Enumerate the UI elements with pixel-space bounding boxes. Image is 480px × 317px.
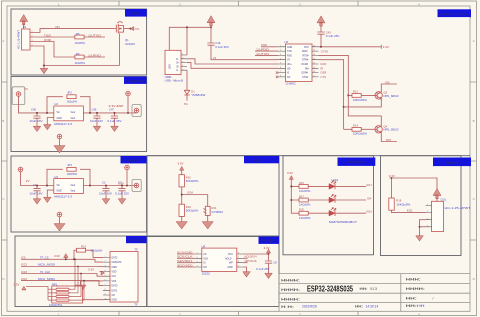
svg-text:1: 1: [32, 31, 33, 33]
svg-text:SI: SI: [203, 263, 206, 265]
svg-text:HHHH:: HHHH:: [281, 298, 300, 302]
svg-text:G: G: [176, 70, 178, 72]
svg-text:XO: XO: [287, 77, 291, 79]
svg-text:3.3V: 3.3V: [14, 282, 20, 286]
svg-text:1KΩ±5%: 1KΩ±5%: [75, 61, 86, 65]
svg-text:FV: FV: [136, 27, 140, 31]
svg-text:RTS#: RTS#: [303, 55, 310, 57]
svg-text:VCC: VCC: [228, 254, 233, 256]
svg-text:6: 6: [105, 280, 106, 282]
svg-text:AMS1117-3.3: AMS1117-3.3: [54, 194, 73, 198]
svg-text:Speak: Speak: [445, 160, 461, 164]
svg-text:HHH:: HHH:: [406, 277, 421, 281]
svg-text:LED1: LED1: [332, 178, 339, 182]
svg-text:CS: CS: [203, 254, 207, 256]
svg-text:IO34: IO34: [187, 191, 193, 195]
svg-text:3: 3: [32, 40, 33, 42]
svg-text:3.3V-ESP: 3.3V-ESP: [109, 104, 124, 108]
svg-text:3: 3: [197, 261, 198, 263]
svg-text:2: 2: [280, 50, 281, 52]
svg-text:U2: U2: [54, 102, 58, 106]
svg-text:5: 5: [182, 69, 183, 71]
svg-text:3: 3: [427, 218, 428, 220]
svg-text:C46: C46: [92, 107, 97, 111]
svg-text:6: 6: [238, 261, 239, 263]
svg-text:4: 4: [197, 266, 198, 268]
svg-text:A: A: [473, 39, 475, 43]
svg-text:NPN_S8013: NPN_S8013: [384, 128, 399, 132]
svg-text:0.1uF 25V: 0.1uF 25V: [215, 45, 229, 49]
svg-text:WP/IO16: WP/IO16: [245, 259, 258, 263]
svg-text:8: 8: [105, 289, 106, 291]
svg-text:6: 6: [280, 67, 281, 69]
svg-text:CH340C: CH340C: [286, 82, 296, 86]
svg-text:H H:: H H:: [281, 305, 294, 309]
svg-text:0.1uF 25V: 0.1uF 25V: [108, 119, 122, 123]
svg-text:TXD0: TXD0: [44, 33, 51, 37]
svg-text:R19: R19: [186, 205, 191, 209]
svg-text:USB: USB: [170, 64, 172, 69]
svg-text:0.1uF 25V: 0.1uF 25V: [256, 267, 270, 271]
svg-text:DAT0: DAT0: [112, 285, 118, 288]
svg-text:VDD: VDD: [112, 272, 117, 274]
svg-text:AMS1117-3.3: AMS1117-3.3: [54, 122, 73, 126]
svg-text:V1.3: V1.3: [370, 287, 377, 291]
svg-text:USB - Micro B: USB - Micro B: [165, 79, 184, 83]
svg-text:56KΩ±5%: 56KΩ±5%: [186, 179, 199, 183]
svg-text:USB to TTL: USB to TTL: [440, 12, 469, 16]
svg-text:LED-RGB: LED-RGB: [348, 160, 365, 164]
svg-text:DTR#: DTR#: [302, 60, 309, 62]
svg-text:FV: FV: [24, 87, 28, 91]
svg-text:1KΩ±5%: 1KΩ±5%: [299, 203, 311, 207]
svg-text:TXD: TXD: [287, 51, 292, 53]
svg-text:10KΩ±5%: 10KΩ±5%: [49, 303, 63, 307]
svg-text:3.3V-ESP32: 3.3V-ESP32: [126, 79, 145, 83]
svg-text:JP3: JP3: [67, 163, 72, 167]
svg-text:15: 15: [313, 50, 315, 52]
svg-text:CN1: CN1: [441, 198, 447, 202]
svg-text:P1: P1: [23, 25, 27, 29]
svg-text:Q1: Q1: [125, 38, 129, 42]
svg-text:Vout: Vout: [71, 111, 76, 114]
svg-text:4: 4: [182, 65, 183, 67]
svg-text:GND: GND: [228, 267, 233, 269]
svg-text:C46: C46: [215, 41, 220, 45]
svg-text:GND: GND: [261, 43, 267, 47]
svg-text:XI: XI: [287, 73, 290, 75]
svg-text:R17: R17: [299, 194, 304, 198]
svg-text:TF: TF: [135, 248, 139, 252]
svg-text:10KΩ±5%: 10KΩ±5%: [396, 203, 411, 207]
svg-text:GT36516: GT36516: [212, 210, 224, 214]
svg-text:1: 1: [197, 253, 198, 255]
svg-text:3.3V: 3.3V: [54, 254, 60, 258]
svg-text:UD+: UD+: [287, 64, 292, 66]
svg-text:HOLD/IO4: HOLD/IO4: [245, 255, 257, 259]
svg-text:C2: C2: [102, 180, 106, 184]
svg-text:5: 5: [105, 275, 106, 277]
svg-text:IO0: IO0: [385, 80, 390, 84]
svg-text:RXD0: RXD0: [44, 38, 52, 42]
svg-text:RST: RST: [386, 138, 392, 142]
svg-text:HC-1.25-4PWT: HC-1.25-4PWT: [445, 206, 471, 210]
svg-text:HHHH:: HHHH:: [406, 287, 425, 291]
svg-text:WP: WP: [229, 263, 233, 265]
svg-text:12: 12: [313, 63, 315, 65]
svg-text:R20: R20: [299, 208, 304, 212]
svg-text:7: 7: [280, 71, 281, 73]
svg-text:D-: D-: [176, 59, 179, 61]
svg-text:2: 2: [182, 58, 183, 60]
svg-text:1: 1: [427, 204, 428, 206]
svg-text:ID: ID: [176, 66, 179, 68]
svg-text:DAT2: DAT2: [112, 256, 118, 259]
svg-text:10uF 16V: 10uF 16V: [30, 192, 43, 196]
svg-text:R6: R6: [76, 52, 80, 56]
svg-text:1KΩ±5%: 1KΩ±5%: [299, 216, 311, 220]
svg-text:56KΩ±5%: 56KΩ±5%: [186, 209, 199, 213]
svg-text:HH:: HH:: [406, 304, 417, 308]
svg-text:HH:: HH:: [355, 305, 363, 309]
svg-text:R12: R12: [353, 90, 358, 94]
svg-text:RXD: RXD: [287, 55, 292, 57]
svg-text:TF: TF: [135, 303, 139, 307]
svg-text:3: 3: [280, 54, 281, 56]
svg-text:4: 4: [427, 225, 428, 227]
svg-text:0Ω±5%: 0Ω±5%: [67, 172, 78, 176]
svg-text:0.1uF 25V: 0.1uF 25V: [326, 34, 340, 38]
svg-text:SD_Car: SD_Car: [129, 238, 145, 242]
svg-text:DCD: DCD: [321, 62, 327, 66]
svg-text:SCK/CLK: SCK/CLK: [177, 255, 193, 259]
svg-text:FLASH: FLASH: [262, 239, 276, 243]
svg-text:10uF 16V: 10uF 16V: [30, 119, 43, 123]
svg-text:ADC: ADC: [254, 158, 260, 162]
svg-text:3.3V: 3.3V: [287, 171, 293, 175]
svg-text:NPN_S8013: NPN_S8013: [384, 94, 399, 98]
svg-text:1KΩ±5%: 1KΩ±5%: [75, 41, 86, 45]
svg-text:SDI/SD1: SDI/SD1: [177, 259, 193, 263]
svg-text:9: 9: [313, 76, 314, 78]
svg-text:JP2: JP2: [67, 91, 72, 95]
svg-text:CTS#: CTS#: [302, 77, 309, 79]
svg-text:C45: C45: [31, 107, 36, 111]
svg-text:CD/DAT3: CD/DAT3: [112, 261, 122, 264]
svg-text:FV: FV: [26, 179, 30, 183]
svg-text:CLK: CLK: [112, 276, 117, 278]
svg-text:4: 4: [32, 45, 33, 47]
svg-text:B: B: [2, 119, 4, 123]
svg-text:R18: R18: [396, 198, 401, 202]
svg-text:DSR: DSR: [321, 71, 327, 75]
svg-text:10KΩ±5%: 10KΩ±5%: [90, 248, 103, 252]
svg-text:GND: GND: [57, 191, 62, 193]
svg-text:B: B: [473, 119, 475, 123]
svg-text:1: 1: [105, 256, 106, 258]
svg-text:CTS: CTS: [321, 75, 327, 79]
svg-text:CMD: CMD: [112, 267, 118, 269]
svg-text:U6: U6: [285, 40, 289, 44]
svg-text:SCK: SCK: [203, 258, 208, 260]
svg-text:R16: R16: [186, 175, 191, 179]
svg-text:10uF 16V: 10uF 16V: [90, 119, 103, 123]
svg-text:HH: HH: [417, 304, 425, 308]
svg-text:IO4: IO4: [367, 196, 372, 200]
svg-text:YM5819W: YM5819W: [191, 93, 206, 97]
svg-text:R21: R21: [212, 206, 217, 210]
svg-text:4: 4: [280, 58, 281, 60]
svg-text:C43: C43: [326, 30, 331, 34]
svg-text:AO3401: AO3401: [125, 42, 135, 46]
svg-text:5: 5: [238, 266, 239, 268]
svg-text:3: 3: [182, 61, 183, 63]
svg-text:1/URXD: 1/URXD: [256, 48, 269, 52]
svg-text:1: 1: [182, 54, 183, 56]
svg-text:A: A: [2, 39, 4, 43]
svg-text:2: 2: [427, 211, 428, 213]
svg-text:3: 3: [105, 265, 106, 267]
svg-text:3.3V: 3.3V: [178, 162, 184, 166]
svg-text:10: 10: [105, 298, 107, 300]
svg-text:RI: RI: [321, 66, 324, 70]
svg-text:IO17: IO17: [366, 183, 372, 187]
svg-text:10: 10: [313, 71, 315, 73]
svg-text:RP1: RP1: [52, 282, 58, 286]
svg-text:0Ω±5%: 0Ω±5%: [67, 99, 78, 103]
svg-text:16: 16: [313, 45, 315, 47]
svg-text:VCC: VCC: [304, 47, 309, 49]
svg-text:8: 8: [238, 253, 239, 255]
svg-text:C47: C47: [109, 107, 114, 111]
svg-text:5: 5: [280, 63, 281, 65]
svg-text:U8: U8: [202, 244, 206, 248]
svg-text:SCS/CMD: SCS/CMD: [177, 250, 193, 254]
svg-text:3.3V: 3.3V: [383, 45, 389, 49]
svg-text:10uF 16V: 10uF 16V: [99, 192, 112, 196]
svg-text:11: 11: [313, 67, 315, 69]
svg-text:9: 9: [105, 294, 106, 296]
svg-text:2: 2: [105, 261, 106, 263]
svg-text:3.3V-TFT: 3.3V-TFT: [124, 158, 142, 162]
svg-text:1/TXD: 1/TXD: [321, 49, 329, 53]
svg-text:R16: R16: [299, 181, 304, 185]
svg-text:HOLD: HOLD: [225, 258, 232, 260]
svg-text:ESP32-3248S035: ESP32-3248S035: [307, 285, 353, 294]
svg-text:IO16: IO16: [366, 210, 372, 214]
svg-text:UD-: UD-: [287, 68, 291, 70]
svg-text:DCD#: DCD#: [302, 64, 309, 66]
svg-text:1KΩ±5%: 1KΩ±5%: [299, 189, 311, 193]
svg-text:DSR#: DSR#: [302, 73, 309, 75]
svg-text:USB1: USB1: [165, 75, 173, 79]
svg-text:/: /: [433, 297, 434, 301]
svg-text:HHHH:: HHHH:: [281, 279, 300, 283]
svg-text:14:30:14: 14:30:14: [366, 305, 379, 309]
svg-text:CD: CD: [112, 295, 116, 297]
svg-text:0.1uF 25V: 0.1uF 25V: [115, 192, 129, 196]
svg-text:DAT1: DAT1: [112, 289, 118, 292]
svg-text:C8: C8: [273, 260, 277, 264]
svg-text:10KΩ±5%: 10KΩ±5%: [353, 98, 368, 102]
svg-text:2: 2: [197, 257, 198, 259]
svg-text:1/UTXD: 1/UTXD: [88, 33, 101, 37]
svg-text:1/URXD: 1/URXD: [88, 53, 101, 57]
svg-text:13: 13: [313, 58, 315, 60]
svg-text:14: 14: [313, 54, 315, 56]
svg-text:3.3V: 3.3V: [264, 246, 270, 250]
svg-text:SO: SO: [203, 267, 207, 269]
svg-text:VIN: VIN: [55, 25, 60, 29]
svg-text:HH:: HH:: [360, 287, 368, 291]
svg-text:GND: GND: [287, 47, 292, 49]
svg-text:R232: R232: [302, 51, 308, 53]
svg-text:1: 1: [280, 45, 281, 47]
svg-text:U3: U3: [54, 175, 58, 179]
svg-text:Vout: Vout: [71, 117, 76, 120]
svg-text:POWER: POWER: [129, 11, 140, 15]
svg-text:SDO/SD0: SDO/SD0: [177, 263, 193, 267]
svg-text:GND: GND: [112, 300, 117, 302]
svg-text:MHPS050RGBCT: MHPS050RGBCT: [329, 220, 357, 224]
svg-text:7: 7: [105, 284, 106, 286]
svg-text:IO21: IO21: [407, 209, 413, 213]
svg-text:HC-1.25-4PWT: HC-1.25-4PWT: [17, 30, 21, 49]
svg-text:PG: PG: [184, 102, 188, 106]
svg-text:3.3V: 3.3V: [88, 268, 94, 272]
svg-text:R5: R5: [76, 32, 80, 36]
svg-text:7: 7: [238, 257, 239, 259]
svg-text:1/UTXD: 1/UTXD: [256, 52, 269, 56]
svg-text:Vout: Vout: [71, 184, 76, 187]
svg-text:10KΩ±5%: 10KΩ±5%: [353, 132, 368, 136]
svg-text:25Q32: 25Q32: [202, 272, 211, 276]
svg-text:HHHH:: HHHH:: [281, 288, 300, 292]
svg-text:GND: GND: [57, 118, 62, 120]
svg-text:3.3V: 3.3V: [118, 181, 124, 185]
svg-text:HH:: HH:: [406, 297, 417, 301]
svg-text:R13: R13: [81, 245, 86, 249]
svg-text:2: 2: [32, 36, 33, 38]
svg-text:Vout: Vout: [71, 190, 76, 193]
svg-text:VSS: VSS: [112, 281, 117, 283]
svg-text:2022/9/26: 2022/9/26: [302, 305, 317, 309]
svg-text:8: 8: [280, 76, 281, 78]
svg-text:R14: R14: [353, 124, 358, 128]
svg-text:V3: V3: [213, 56, 217, 60]
svg-text:4: 4: [105, 270, 106, 272]
svg-text:D1: D1: [191, 89, 195, 93]
